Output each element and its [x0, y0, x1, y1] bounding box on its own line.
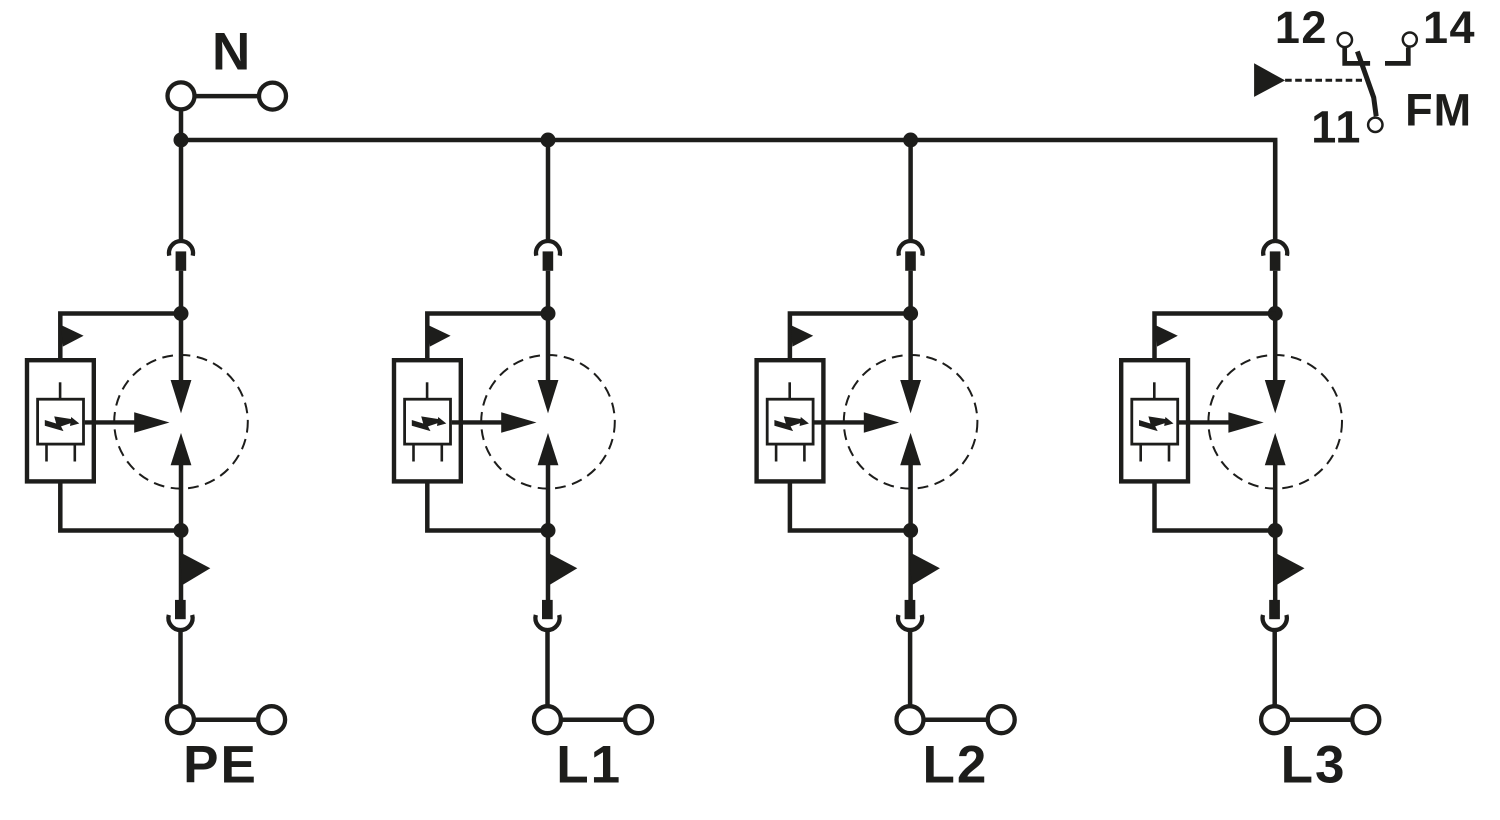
spark gap dashed circle (branch L1) — [481, 355, 615, 489]
svg-text:11: 11 — [1311, 101, 1362, 152]
trigger element right leg (branch L1) — [440, 446, 443, 462]
node bottom junction (branch L2) — [903, 523, 918, 538]
trigger arrow head (branch L1) — [501, 412, 536, 433]
terminal N right circle — [259, 83, 286, 110]
trigger element inner box (branch L3) — [1132, 399, 1178, 444]
wire node to plug pin (branch L2) — [908, 531, 913, 601]
surge bolt icon (branch PE) — [45, 416, 80, 431]
plug-in disconnect bottom pin (branch L1) — [542, 600, 553, 619]
wire disconnect to node (branch L2) — [908, 271, 913, 314]
trigger unit box (branch L1) — [394, 360, 461, 481]
plug-in disconnect bottom socket arc (branch L1) — [535, 615, 559, 630]
node top junction (branch PE) — [174, 306, 189, 321]
spark gap dashed circle (branch PE) — [114, 355, 248, 489]
spark gap lower electrode arrow (branch L3) — [1265, 433, 1286, 465]
spark gap dashed circle (branch L3) — [1208, 355, 1342, 489]
surge bolt icon (branch L3) — [1139, 416, 1174, 431]
FM actuator dashed link — [1285, 79, 1362, 82]
plug-in disconnect top socket arc (branch L3) — [1263, 241, 1287, 256]
trigger element inner box (branch PE) — [38, 399, 84, 444]
plug-in disconnect bottom pin (branch PE) — [175, 600, 186, 619]
wire disconnect to node (branch PE) — [179, 271, 184, 314]
trigger element right leg (branch L2) — [803, 446, 806, 462]
terminal PE right circle — [258, 706, 285, 733]
plug-in disconnect top socket arc (branch PE) — [169, 241, 193, 256]
trigger branch flag indicator (branch PE) — [61, 325, 84, 347]
FM contact circle 12 — [1338, 33, 1352, 47]
terminal L2 bridge wire — [923, 717, 989, 722]
terminal L1 bridge wire — [561, 717, 627, 722]
trigger arrow shaft (branch L1) — [452, 420, 506, 424]
wire out of spark gap (branch L3) — [1273, 464, 1278, 531]
wire terminal N to bus — [179, 110, 184, 141]
wire into spark gap (branch PE) — [179, 314, 184, 382]
terminal N left circle — [168, 82, 195, 109]
spark gap lower electrode arrow (branch PE) — [171, 433, 192, 465]
svg-text:PE: PE — [183, 736, 258, 795]
plug-in disconnect top pin (branch L3) — [1270, 251, 1281, 270]
terminal L1 right circle — [625, 706, 652, 733]
wire socket to terminal (branch PE) — [178, 630, 183, 708]
trigger electrode line (branch L3) — [1153, 382, 1156, 399]
wire into spark gap (branch L2) — [908, 314, 913, 382]
wire bus to disconnect (branch L1) — [546, 140, 551, 241]
terminal L3 bridge wire — [1288, 717, 1354, 722]
node top junction (branch L1) — [541, 306, 556, 321]
surge bolt icon (branch L2) — [774, 416, 809, 431]
thermal disconnect flag (branch L1) — [547, 552, 577, 585]
FM fixed contact 14 wire — [1385, 48, 1408, 64]
wire trigger box to bottom node (branch L3) — [1155, 484, 1276, 531]
spark gap lower electrode arrow (branch L1) — [538, 433, 559, 465]
thermal disconnect flag (branch L3) — [1274, 552, 1304, 585]
node bottom junction (branch L1) — [541, 523, 556, 538]
plug-in disconnect bottom pin (branch L3) — [1269, 600, 1280, 619]
trigger unit box (branch PE) — [27, 360, 94, 481]
trigger arrow shaft (branch PE) — [85, 420, 139, 424]
wire socket to terminal (branch L3) — [1272, 630, 1277, 708]
terminal L3 left circle — [1261, 706, 1288, 733]
trigger element left leg (branch PE) — [45, 446, 48, 462]
FM actuator arrow — [1254, 63, 1285, 97]
wire out of spark gap (branch PE) — [179, 464, 184, 531]
wire node to plug pin (branch L1) — [546, 531, 551, 601]
wire disconnect to node (branch L3) — [1273, 271, 1278, 314]
trigger element right leg (branch PE) — [74, 446, 77, 462]
wire bus to disconnect (branch L2) — [908, 140, 913, 241]
node top junction (branch L2) — [903, 306, 918, 321]
spark gap upper electrode arrow (branch L2) — [900, 380, 921, 413]
plug-in disconnect top socket arc (branch L1) — [536, 241, 560, 256]
plug-in disconnect bottom socket arc (branch L2) — [898, 615, 922, 630]
trigger branch flag indicator (branch L2) — [791, 325, 814, 347]
node bottom junction (branch L3) — [1268, 523, 1283, 538]
terminal L1 left circle — [534, 706, 561, 733]
thermal disconnect flag (branch L2) — [910, 552, 940, 585]
FM moving contact wire — [1357, 51, 1376, 116]
node bottom junction (branch PE) — [174, 523, 189, 538]
wire node to trigger box (branch L3) — [1155, 314, 1276, 361]
wire node to trigger box (branch L2) — [790, 314, 911, 361]
terminal PE left circle — [167, 706, 194, 733]
trigger branch flag indicator (branch L1) — [428, 325, 451, 347]
terminal L3 right circle — [1352, 706, 1379, 733]
trigger arrow head (branch L2) — [864, 412, 899, 433]
plug-in disconnect top pin (branch L2) — [905, 251, 916, 270]
svg-text:L2: L2 — [922, 736, 988, 795]
surge bolt icon (branch L1) — [412, 416, 447, 431]
wire node to plug pin (branch L3) — [1273, 531, 1278, 601]
wire disconnect to node (branch L1) — [546, 271, 551, 314]
wire bus N horizontal with right drop — [181, 140, 1275, 240]
wire into spark gap (branch L1) — [546, 314, 551, 382]
node top junction (branch L3) — [1268, 306, 1283, 321]
node bus junction branch PE — [174, 133, 189, 148]
terminal N bridge wire — [195, 94, 259, 99]
wire into spark gap (branch L3) — [1273, 314, 1278, 382]
svg-text:L1: L1 — [556, 736, 622, 795]
wire socket to terminal (branch L2) — [908, 630, 913, 708]
svg-text:N: N — [212, 22, 250, 81]
spark gap dashed circle (branch L2) — [844, 355, 978, 489]
svg-text:14: 14 — [1423, 2, 1476, 53]
spark gap upper electrode arrow (branch L1) — [538, 380, 559, 413]
trigger element left leg (branch L2) — [775, 446, 778, 462]
svg-text:12: 12 — [1275, 2, 1328, 53]
spark gap upper electrode arrow (branch PE) — [171, 380, 192, 413]
spark gap upper electrode arrow (branch L3) — [1265, 380, 1286, 413]
terminal L2 right circle — [988, 706, 1015, 733]
wire trigger box to bottom node (branch PE) — [60, 484, 181, 531]
wire out of spark gap (branch L2) — [908, 464, 913, 531]
trigger unit box (branch L2) — [757, 360, 824, 481]
plug-in disconnect top pin (branch PE) — [176, 251, 187, 270]
trigger electrode line (branch L2) — [788, 382, 791, 399]
plug-in disconnect bottom socket arc (branch L3) — [1263, 615, 1287, 630]
trigger branch flag indicator (branch L3) — [1155, 325, 1178, 347]
trigger element inner box (branch L1) — [405, 399, 451, 444]
trigger arrow shaft (branch L3) — [1179, 420, 1233, 424]
terminal PE bridge wire — [194, 717, 260, 722]
wire socket to terminal (branch L1) — [545, 630, 550, 708]
spark gap lower electrode arrow (branch L2) — [900, 433, 921, 465]
trigger unit box (branch L3) — [1121, 360, 1188, 481]
trigger element inner box (branch L2) — [767, 399, 813, 444]
wire node to trigger box (branch L1) — [427, 314, 548, 361]
trigger element right leg (branch L3) — [1168, 446, 1171, 462]
trigger element left leg (branch L1) — [412, 446, 415, 462]
wire bus to disconnect (branch PE) — [179, 140, 184, 241]
plug-in disconnect top socket arc (branch L2) — [899, 241, 923, 256]
trigger electrode line (branch L1) — [426, 382, 429, 399]
trigger electrode line (branch PE) — [59, 382, 62, 399]
wire node to trigger box (branch PE) — [60, 314, 181, 361]
trigger element left leg (branch L3) — [1139, 446, 1142, 462]
trigger arrow head (branch PE) — [134, 412, 169, 433]
wire out of spark gap (branch L1) — [546, 464, 551, 531]
terminal L2 left circle — [897, 706, 924, 733]
svg-text:L3: L3 — [1281, 736, 1347, 795]
trigger arrow shaft (branch L2) — [814, 420, 868, 424]
plug-in disconnect bottom pin (branch L2) — [905, 600, 916, 619]
thermal disconnect flag (branch PE) — [180, 552, 210, 585]
wire node to plug pin (branch PE) — [179, 531, 184, 601]
wire trigger box to bottom node (branch L2) — [790, 484, 911, 531]
FM contact circle 14 — [1403, 33, 1417, 47]
plug-in disconnect bottom socket arc (branch PE) — [168, 615, 192, 630]
node bus junction branch L2 — [903, 133, 918, 148]
node bus junction branch L1 — [541, 133, 556, 148]
wire trigger box to bottom node (branch L1) — [427, 484, 548, 531]
FM fixed contact 12 wire — [1345, 48, 1370, 63]
wire bus to disconnect (branch L3) — [1273, 140, 1278, 241]
FM contact circle 11 — [1368, 118, 1382, 132]
svg-text:FM: FM — [1405, 85, 1472, 136]
trigger arrow head (branch L3) — [1228, 412, 1263, 433]
plug-in disconnect top pin (branch L1) — [543, 251, 554, 270]
